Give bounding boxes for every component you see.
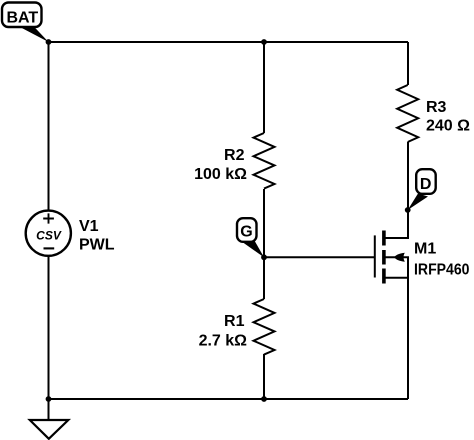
svg-text:R1: R1 <box>224 313 245 330</box>
wire bottom rail <box>49 398 409 400</box>
node label G <box>237 218 264 257</box>
transistor M1 gate bar <box>374 235 376 277</box>
junction dot BAT node <box>46 39 52 45</box>
wire body stub <box>386 257 409 278</box>
node label BAT <box>2 3 49 43</box>
wire middle rail lower <box>263 354 265 399</box>
svg-text:R2: R2 <box>224 147 245 164</box>
wire gate <box>264 256 375 258</box>
node label D <box>408 169 436 210</box>
wire top rail <box>49 41 409 43</box>
resistor R3 <box>397 85 418 142</box>
svg-text:IRFP460: IRFP460 <box>414 262 470 279</box>
svg-text:D: D <box>420 176 432 193</box>
junction dot node G <box>261 254 267 260</box>
wire left rail lower <box>48 257 50 400</box>
transistor M1 body arrow <box>394 253 405 262</box>
svg-text:R3: R3 <box>426 99 447 116</box>
wire source <box>386 278 409 399</box>
junction dot node D <box>405 207 411 213</box>
wire right rail upper <box>407 42 409 85</box>
label M1 IRFP460 <box>414 241 470 279</box>
wire middle rail mid <box>263 189 265 299</box>
svg-text:2.7 kΩ: 2.7 kΩ <box>199 333 248 350</box>
value label R3 240 Ohm <box>426 99 470 135</box>
wire middle rail upper <box>263 42 265 133</box>
resistor R2 <box>254 133 275 189</box>
junction dot bottom middle <box>261 396 267 402</box>
resistor R1 <box>254 299 275 355</box>
ground <box>30 399 69 439</box>
svg-text:G: G <box>240 223 252 240</box>
label V1 PWL <box>79 218 115 254</box>
junction dot bottom left <box>46 396 52 402</box>
svg-text:240 Ω: 240 Ω <box>426 118 470 135</box>
junction dot top middle <box>261 39 267 45</box>
value label R1 2.7 kOhm <box>199 313 248 350</box>
svg-text:V1: V1 <box>79 218 99 235</box>
wire left rail upper <box>48 42 50 210</box>
wire right rail drain <box>386 142 409 238</box>
svg-text:PWL: PWL <box>79 237 115 254</box>
value label R2 100 kOhm <box>194 147 247 183</box>
svg-text:100 kΩ: 100 kΩ <box>194 166 247 183</box>
svg-text:M1: M1 <box>414 241 436 258</box>
voltage source V1 <box>26 211 71 256</box>
transistor M1 channel segments <box>382 231 386 284</box>
svg-text:BAT: BAT <box>6 9 38 26</box>
svg-text:CSV: CSV <box>36 229 62 243</box>
